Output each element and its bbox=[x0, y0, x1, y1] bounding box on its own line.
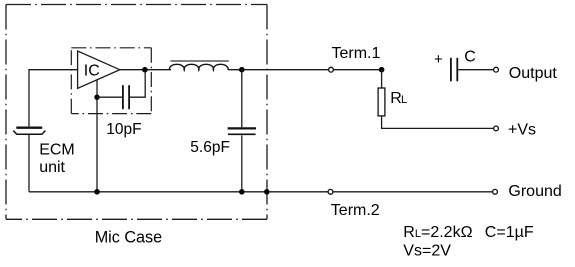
svg-text:Term.1: Term.1 bbox=[332, 45, 381, 62]
svg-text:L: L bbox=[401, 94, 407, 106]
terminal Term.1 bbox=[329, 67, 334, 72]
node 10pF ground junction bbox=[94, 189, 100, 195]
mic case dashed enclosure bbox=[6, 5, 267, 220]
terminal Output bbox=[494, 67, 499, 72]
wire ECM top to IC input bbox=[29, 70, 78, 127]
svg-text:+: + bbox=[434, 51, 443, 68]
label 10pF bbox=[106, 121, 141, 138]
node case ground junction bbox=[264, 189, 270, 195]
svg-text:+Vs: +Vs bbox=[508, 122, 536, 139]
capacitor ECM unit bbox=[13, 128, 45, 135]
label + polarity bbox=[434, 51, 443, 68]
svg-text:IC: IC bbox=[84, 63, 100, 80]
label ECM unit bbox=[39, 142, 75, 176]
wire RL bottom to +Vs bbox=[382, 116, 494, 128]
terminal Ground bbox=[493, 189, 498, 194]
wire 5.6pF capacitor bottom lead bbox=[241, 135, 243, 191]
label C=1uF bbox=[485, 224, 534, 241]
label Output bbox=[509, 65, 558, 82]
node feedback junction bbox=[94, 95, 99, 100]
wire ECM bottom to ground rail bbox=[28, 135, 30, 192]
resistor RL bbox=[378, 88, 385, 116]
terminal Term.2 bbox=[328, 189, 333, 194]
node inductor output junction bbox=[239, 67, 245, 73]
svg-text:C=1µF: C=1µF bbox=[485, 224, 534, 241]
IC package dashed box bbox=[71, 48, 151, 114]
svg-text:Term.2: Term.2 bbox=[331, 202, 380, 219]
label +Vs bbox=[508, 122, 536, 139]
label Vs=2V bbox=[403, 242, 451, 259]
label RL bbox=[390, 90, 407, 107]
wire inductor to Term.1 bbox=[228, 69, 381, 71]
wire RL top lead bbox=[381, 70, 383, 88]
wire 10pF capacitor to output node bbox=[130, 70, 145, 98]
inductor L1 bbox=[169, 61, 228, 70]
wire IC output to inductor bbox=[120, 69, 171, 71]
label 5.6pF bbox=[190, 139, 230, 156]
wire feedback tap from triangle to ground bbox=[96, 79, 98, 191]
terminal +Vs bbox=[494, 126, 499, 131]
svg-text:RL=2.2kΩ: RL=2.2kΩ bbox=[403, 224, 472, 241]
svg-text:5.6pF: 5.6pF bbox=[190, 139, 230, 156]
wire ground rail bbox=[29, 191, 494, 193]
label Mic Case bbox=[95, 228, 162, 246]
wire 5.6pF capacitor top lead bbox=[241, 70, 243, 128]
svg-text:C: C bbox=[464, 48, 476, 65]
label C bbox=[464, 48, 476, 65]
svg-text:Mic Case: Mic Case bbox=[95, 228, 162, 246]
node IC output junction bbox=[142, 67, 148, 73]
svg-text:10pF: 10pF bbox=[106, 121, 141, 138]
wire feedback node to 10pF capacitor bbox=[97, 96, 122, 98]
svg-text:unit: unit bbox=[39, 159, 65, 176]
svg-text:Vs=2V: Vs=2V bbox=[403, 242, 451, 259]
capacitor C 5.6pF bbox=[228, 128, 256, 134]
label RL=2.2kOhm bbox=[403, 224, 472, 241]
svg-text:Ground: Ground bbox=[508, 183, 561, 200]
label Term.2 bbox=[331, 202, 380, 219]
label Ground bbox=[508, 183, 561, 200]
wire C to Output terminal bbox=[458, 69, 494, 71]
capacitor C 10pF bbox=[123, 85, 129, 109]
svg-text:ECM: ECM bbox=[39, 142, 75, 159]
node Term.1 junction bbox=[379, 67, 385, 73]
label Term.1 bbox=[332, 45, 381, 62]
svg-text:Output: Output bbox=[509, 65, 558, 82]
capacitor C output coupling bbox=[451, 58, 457, 82]
op-amp U1 IC triangle bbox=[78, 51, 120, 88]
node 5.6pF ground junction bbox=[239, 189, 245, 195]
